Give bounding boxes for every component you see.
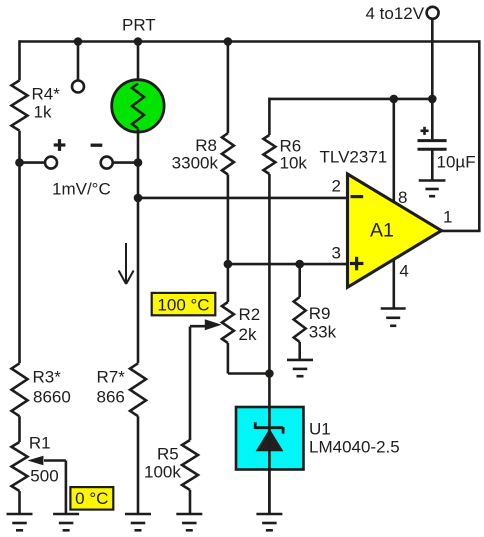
- svg-text:LM4040-2.5: LM4040-2.5: [309, 437, 400, 456]
- svg-text:866: 866: [97, 387, 125, 406]
- svg-text:8660: 8660: [33, 387, 71, 406]
- svg-text:33k: 33k: [309, 323, 337, 342]
- svg-text:3: 3: [332, 244, 341, 263]
- svg-text:1: 1: [443, 207, 452, 226]
- svg-text:R9: R9: [309, 304, 331, 323]
- svg-text:10µF: 10µF: [437, 152, 476, 171]
- svg-text:A1: A1: [370, 219, 394, 241]
- svg-text:8: 8: [398, 188, 407, 207]
- svg-text:U1: U1: [309, 419, 331, 438]
- svg-text:R8: R8: [195, 136, 217, 155]
- svg-text:1mV/°C: 1mV/°C: [52, 180, 111, 199]
- svg-text:1k: 1k: [34, 103, 52, 122]
- svg-text:100k: 100k: [144, 462, 181, 481]
- svg-text:R3*: R3*: [33, 367, 62, 386]
- svg-text:TLV2371: TLV2371: [320, 148, 388, 167]
- svg-text:2: 2: [332, 177, 341, 196]
- svg-text:100 °C: 100 °C: [157, 296, 209, 315]
- svg-text:4: 4: [399, 262, 408, 281]
- svg-text:3300k: 3300k: [172, 153, 219, 172]
- svg-text:R1: R1: [29, 433, 51, 452]
- svg-text:R2: R2: [239, 305, 261, 324]
- svg-text:R7*: R7*: [97, 367, 126, 386]
- svg-text:500: 500: [30, 467, 58, 486]
- svg-text:PRT: PRT: [122, 15, 156, 34]
- svg-text:0 °C: 0 °C: [75, 489, 108, 508]
- svg-text:2k: 2k: [239, 325, 257, 344]
- svg-text:4 to12V: 4 to12V: [366, 4, 425, 23]
- svg-text:R4*: R4*: [32, 84, 61, 103]
- svg-text:10k: 10k: [280, 154, 308, 173]
- svg-text:R5: R5: [157, 445, 179, 464]
